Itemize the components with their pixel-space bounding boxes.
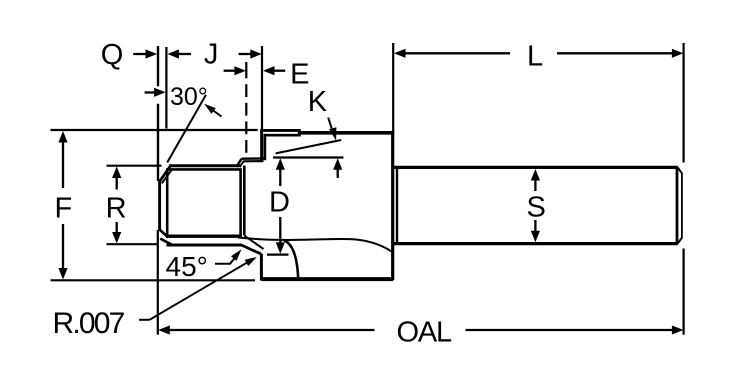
svg-text:D: D bbox=[269, 187, 290, 219]
svg-text:30°: 30° bbox=[170, 83, 208, 111]
svg-text:OAL: OAL bbox=[397, 316, 452, 348]
svg-text:L: L bbox=[527, 40, 543, 72]
svg-text:R.007: R.007 bbox=[53, 307, 125, 340]
svg-text:45°: 45° bbox=[166, 251, 208, 282]
svg-text:J: J bbox=[204, 39, 219, 71]
svg-text:Q: Q bbox=[101, 39, 124, 71]
svg-text:R: R bbox=[106, 193, 127, 225]
svg-text:E: E bbox=[290, 59, 309, 91]
svg-text:F: F bbox=[55, 193, 73, 225]
svg-text:K: K bbox=[308, 86, 328, 118]
svg-text:S: S bbox=[527, 192, 546, 224]
